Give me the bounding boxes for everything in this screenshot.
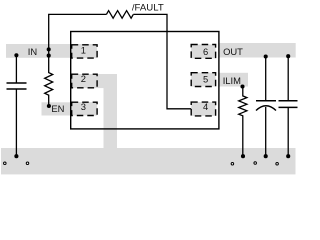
via (26, 162, 29, 165)
svg-text:ILIM: ILIM (223, 75, 241, 86)
resistor R3 ILIM set (239, 87, 247, 157)
capacitor C2 lower lead (265, 107, 267, 156)
svg-text:4: 4 (203, 101, 208, 112)
pin 6 (191, 45, 215, 59)
via (231, 163, 234, 166)
resistor R2 EN pull-up (45, 56, 53, 106)
junction dot IN/FAULT (47, 47, 51, 51)
pin 1 (72, 45, 97, 58)
pin 3 (72, 102, 97, 115)
junction dot ILIM/R3 (240, 84, 244, 88)
svg-text:/FAULT: /FAULT (132, 2, 164, 13)
net GND copper trace (vertical) (104, 88, 118, 148)
pin 1 pad fill (72, 45, 97, 58)
pin 4 (191, 102, 215, 116)
pin 6 pad fill (191, 45, 215, 59)
net ILIM copper trace (219, 73, 248, 87)
capacitor C2 output bulk upper lead (265, 57, 267, 101)
svg-text:2: 2 (81, 73, 86, 84)
junction dot GND/C1 (14, 154, 18, 158)
via (254, 162, 257, 165)
svg-text:IN: IN (28, 46, 37, 57)
svg-text:3: 3 (81, 101, 86, 112)
svg-text:6: 6 (203, 46, 208, 57)
svg-text:EN: EN (51, 103, 64, 114)
svg-text:1: 1 (81, 45, 86, 56)
capacitor C1 lower lead (15, 89, 17, 156)
svg-text:5: 5 (203, 74, 208, 85)
pin 3 pad fill (72, 102, 97, 115)
net OUT copper trace (219, 43, 296, 58)
net IN copper trace (6, 44, 97, 58)
via (4, 162, 7, 165)
pin 4 pad fill (191, 102, 215, 116)
capacitor C2 top plate (256, 100, 276, 102)
op IC U1 outline (71, 32, 219, 129)
junction dot EN (47, 104, 51, 108)
capacitor C3 output upper lead (287, 56, 289, 101)
via (276, 163, 279, 166)
svg-text:OUT: OUT (223, 46, 243, 57)
junction dot GND/C3 (286, 154, 290, 158)
junction dot OUT/C3 (286, 54, 290, 58)
junction dot OUT/C2 (264, 54, 268, 58)
capacitor C1 plates (7, 82, 27, 84)
capacitor C2 curved bottom plate (256, 106, 276, 111)
resistor R1 /FAULT pull-up (106, 11, 133, 19)
wire /FAULT to pin 4 (133, 14, 191, 108)
junction dot IN/C1 (14, 53, 18, 57)
junction dot IN/R2 (47, 54, 51, 58)
junction dot GND/R3 (241, 154, 245, 158)
junction dot GND/C2 (264, 154, 268, 158)
pin 5 (191, 73, 215, 87)
capacitor C3 lower lead (287, 107, 289, 156)
net EN copper trace (42, 102, 98, 115)
wire IN up to /FAULT pull-up (49, 14, 107, 55)
capacitor C3 plates (279, 100, 298, 102)
capacitor C1 input upper lead (15, 55, 17, 83)
pin 2 (72, 74, 97, 88)
net GND copper trace (pin 2 stub) (72, 74, 118, 88)
net GND bottom plane (1, 148, 296, 174)
pin 5 pad fill (191, 73, 215, 87)
